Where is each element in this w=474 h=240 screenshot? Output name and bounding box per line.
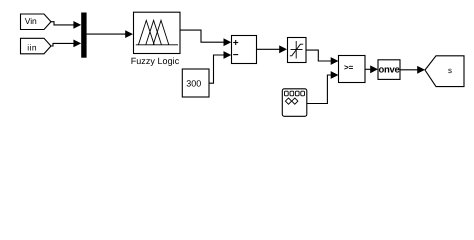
membership triangle 1	[138, 20, 154, 44]
membership baseline axis	[136, 44, 178, 46]
wire Vin to Mux	[51, 22, 74, 25]
source block with squares and diamonds icon	[282, 89, 307, 117]
svg-text:Fuzzy Logic: Fuzzy Logic	[131, 56, 180, 66]
svg-text:>=: >=	[344, 63, 354, 72]
From tag Vin	[21, 14, 52, 30]
icon square 1	[285, 91, 289, 96]
saturation icon curve	[290, 44, 303, 56]
minus sign	[233, 54, 238, 56]
wire Saturation to RelOp top input	[306, 50, 332, 61]
svg-text:300: 300	[186, 78, 201, 88]
wire iin to Mux	[51, 43, 74, 46]
svg-text:Vin: Vin	[25, 16, 37, 26]
block U1 Fuzzy Logic Controller	[134, 12, 181, 53]
wire Mux to Fuzzy	[87, 33, 126, 35]
wire Convert to Goto tag	[400, 69, 418, 71]
sum block	[232, 36, 257, 64]
svg-text:s: s	[448, 66, 452, 75]
membership triangle 3	[153, 20, 169, 44]
saturation block	[288, 38, 307, 63]
wire RelOp to Convert	[365, 68, 371, 70]
relational operator block	[339, 56, 366, 83]
wire Fuzzy to Sum plus input	[180, 30, 225, 42]
plus sign	[233, 42, 238, 44]
saturation icon vertical axis	[295, 41, 297, 59]
wire source to RelOp bottom input	[307, 75, 332, 104]
data type conversion block (clipped "Convert")	[378, 60, 400, 80]
icon square 2	[290, 91, 294, 96]
membership triangle 2	[146, 20, 162, 44]
Goto tag s	[425, 56, 464, 87]
wire Sum to Saturation	[257, 48, 280, 50]
saturation icon horizontal axis	[291, 49, 303, 51]
mux Mux	[81, 13, 86, 58]
icon diamond 2	[292, 98, 298, 104]
icon diamond 1	[285, 98, 291, 104]
icon square 3	[295, 91, 299, 96]
svg-text:iin: iin	[27, 43, 37, 53]
icon square 4	[301, 91, 305, 96]
From tag iin	[21, 38, 52, 54]
wire 300 to Sum minus input	[209, 55, 225, 83]
constant block 300	[182, 69, 209, 97]
svg-text:onve: onve	[379, 65, 400, 76]
